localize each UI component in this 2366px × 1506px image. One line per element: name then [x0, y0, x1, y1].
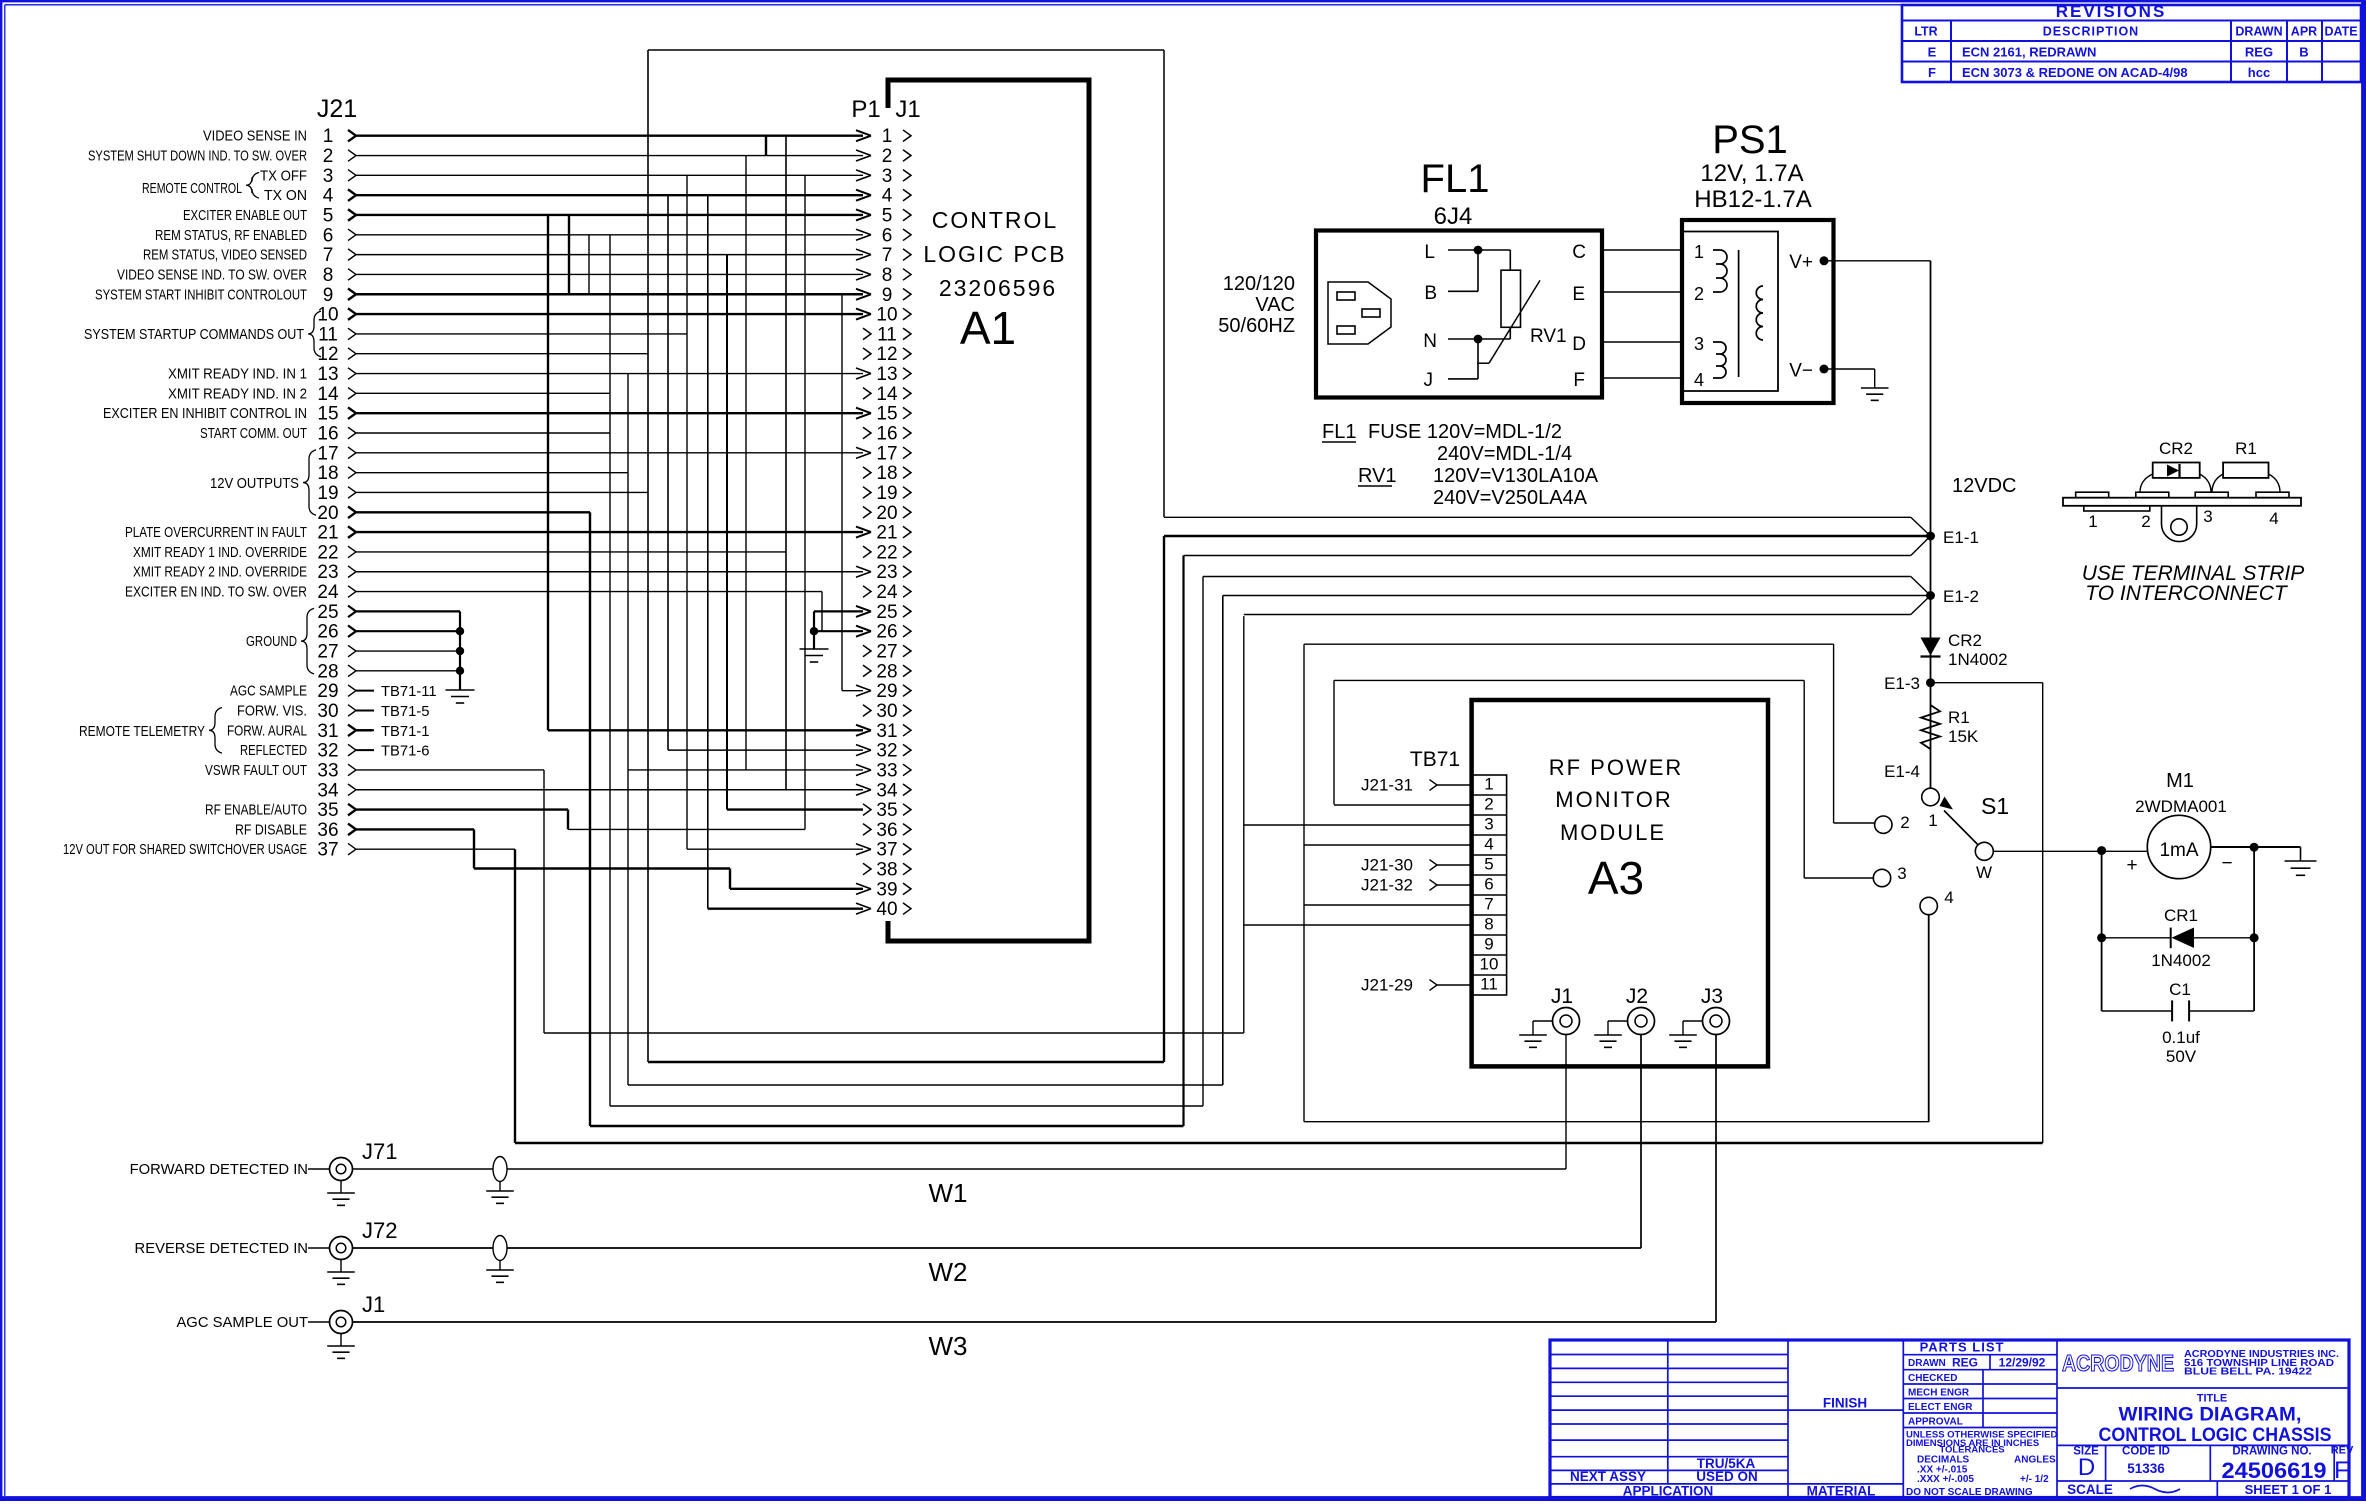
svg-text:W2: W2: [929, 1257, 968, 1287]
svg-text:REFLECTED: REFLECTED: [240, 743, 307, 759]
wire pin36 jog: [474, 867, 730, 869]
svg-text:7: 7: [1484, 895, 1493, 914]
wire J21 pin 7: [143, 245, 863, 266]
switch S1: [1873, 788, 2009, 915]
svg-text:NEXT ASSY: NEXT ASSY: [1570, 1469, 1646, 1484]
wire J21 pin 12: [317, 344, 648, 365]
svg-text:5: 5: [882, 205, 893, 226]
wire J1 to W1: [1565, 1035, 1567, 1170]
svg-text:S1: S1: [1981, 793, 2009, 819]
svg-text:12V OUT FOR SHARED SWITCHOVER: 12V OUT FOR SHARED SWITCHOVER USAGE: [63, 842, 307, 858]
svg-text:LTR: LTR: [1914, 25, 1937, 39]
svg-text:VIDEO SENSE IN: VIDEO SENSE IN: [203, 129, 307, 145]
svg-text:APPLICATION: APPLICATION: [1623, 1484, 1714, 1499]
wire FL1 to PS1: [1601, 341, 1684, 343]
wire to S1 position 3: [1334, 679, 1804, 681]
svg-text:E: E: [1572, 284, 1585, 305]
wire J21 pin 11: [318, 324, 687, 345]
svg-text:SYSTEM SHUT DOWN IND. TO SW. O: SYSTEM SHUT DOWN IND. TO SW. OVER: [88, 149, 307, 165]
svg-text:2: 2: [1484, 795, 1493, 814]
svg-text:11: 11: [1480, 975, 1498, 994]
svg-text:XMIT READY IND. IN 1: XMIT READY IND. IN 1: [168, 367, 307, 383]
svg-text:GROUND: GROUND: [246, 634, 297, 650]
wire J21 pin 8: [117, 265, 863, 286]
svg-text:REM STATUS, RF ENABLED: REM STATUS, RF ENABLED: [155, 228, 307, 244]
svg-text:30: 30: [876, 701, 897, 722]
svg-text:C: C: [1572, 242, 1586, 263]
wire J21 pin 27: [317, 642, 460, 663]
svg-text:START COMM. OUT: START COMM. OUT: [200, 426, 307, 442]
svg-text:B: B: [1424, 283, 1437, 304]
svg-text:28: 28: [876, 661, 897, 682]
resistor R1 15K: [1921, 705, 1979, 749]
wire S1 wiper to meter: [1993, 850, 2147, 852]
svg-text:APR: APR: [2291, 25, 2317, 39]
connector P1/J1 pin 32: [856, 741, 911, 762]
svg-text:VAC: VAC: [1255, 294, 1295, 316]
wire J21 pin 18: [317, 463, 628, 484]
svg-text:CR1: CR1: [2164, 906, 2198, 925]
svg-text:PLATE OVERCURRENT IN FAULT: PLATE OVERCURRENT IN FAULT: [125, 525, 307, 541]
svg-text:TB71-1: TB71-1: [381, 724, 430, 740]
svg-text:21: 21: [876, 523, 897, 544]
svg-text:E1-3: E1-3: [1884, 674, 1920, 693]
wire J21 pin 28: [317, 661, 460, 682]
svg-text:25: 25: [876, 602, 897, 623]
wire J21 pin 20: [317, 503, 590, 524]
svg-text:9: 9: [1484, 935, 1493, 954]
wire to P1 pin 33: [628, 769, 863, 771]
svg-text:XMIT READY 2 IND. OVERRIDE: XMIT READY 2 IND. OVERRIDE: [133, 565, 307, 581]
ground P1 pins 25-26: [800, 611, 829, 662]
svg-text:17: 17: [876, 443, 897, 464]
svg-text:REG: REG: [1952, 1356, 1978, 1370]
wire J21 pin 6: [155, 225, 863, 246]
coax connector J72: [135, 1218, 398, 1284]
svg-text:ECN 2161, REDRAWN: ECN 2161, REDRAWN: [1962, 45, 2096, 60]
svg-text:4: 4: [2269, 509, 2278, 528]
connector P1/J1 pin 29: [856, 681, 911, 702]
svg-text:REM STATUS, VIDEO SENSED: REM STATUS, VIDEO SENSED: [143, 248, 307, 264]
svg-text:14: 14: [317, 384, 339, 405]
svg-text:DRAWN: DRAWN: [1908, 1358, 1946, 1369]
svg-text:hcc: hcc: [2248, 65, 2270, 80]
wire to TB71-4: [1304, 844, 1472, 846]
svg-text:TB71: TB71: [1410, 748, 1460, 771]
terminal strip drawing: [2063, 492, 2301, 541]
connector P1/J1 pin 31: [856, 721, 911, 742]
svg-text:CR2: CR2: [2159, 439, 2193, 458]
svg-text:SYSTEM STARTUP COMMANDS OUT: SYSTEM STARTUP COMMANDS OUT: [84, 327, 304, 343]
jack J3 on A3: [1669, 985, 1729, 1047]
ground meter: [2300, 847, 2302, 861]
wire vertical nest: [745, 156, 747, 770]
svg-text:30: 30: [317, 701, 338, 722]
control logic PCB A1: [888, 80, 1089, 941]
svg-text:F: F: [1573, 370, 1585, 391]
svg-text:TX ON: TX ON: [264, 188, 307, 204]
connector P1/J1 pin 27: [863, 642, 911, 663]
svg-text:35: 35: [317, 800, 338, 821]
svg-text:23: 23: [876, 562, 897, 583]
svg-text:34: 34: [317, 780, 339, 801]
svg-text:26: 26: [876, 622, 897, 643]
svg-text:DRAWING NO.: DRAWING NO.: [2232, 1445, 2311, 1457]
svg-text:+: +: [2126, 855, 2137, 876]
svg-text:9: 9: [323, 285, 334, 306]
connector P1/J1 pin 9: [856, 285, 911, 306]
svg-text:DRAWN: DRAWN: [2235, 25, 2282, 39]
coax connector J1: [176, 1292, 385, 1358]
svg-text:38: 38: [876, 860, 897, 881]
svg-text:5: 5: [1484, 855, 1493, 874]
svg-text:V−: V−: [1789, 361, 1813, 382]
svg-text:1mA: 1mA: [2159, 840, 2198, 861]
node E1-2 bundle: [1203, 577, 1979, 615]
svg-text:J21-29: J21-29: [1361, 976, 1413, 995]
wire J21 pin 14: [168, 384, 610, 405]
connector P1/J1 pin 37: [856, 840, 911, 861]
wire bus horizontal: [1304, 1121, 1929, 1123]
svg-text:240V=V250LA4A: 240V=V250LA4A: [1433, 487, 1588, 509]
svg-text:28: 28: [317, 661, 338, 682]
svg-text:RF DISABLE: RF DISABLE: [235, 822, 307, 838]
svg-text:FL1: FL1: [1421, 157, 1490, 201]
svg-text:TB71-5: TB71-5: [381, 704, 430, 720]
wire J21 pin 24: [125, 582, 822, 603]
wire J21 pin 15: [103, 404, 863, 425]
jack J1 on A3: [1519, 985, 1579, 1047]
svg-text:J72: J72: [362, 1218, 397, 1243]
wire vertical nest: [707, 195, 709, 909]
svg-text:50/60HZ: 50/60HZ: [1218, 315, 1295, 337]
svg-text:32: 32: [876, 741, 897, 762]
varistor RV1: [1477, 250, 1567, 363]
wire J21 pin 30: [237, 701, 372, 722]
svg-text:21: 21: [317, 523, 338, 544]
connector P1/J1 pin 38: [863, 860, 911, 881]
svg-text:J2: J2: [1626, 985, 1648, 1008]
svg-text:1N4002: 1N4002: [2151, 951, 2211, 970]
connector P1/J1 pin 23: [856, 562, 911, 583]
node E1-3: [1926, 678, 1935, 687]
wire J21 pin 37: [63, 840, 515, 861]
wire V+ to rail: [1824, 260, 1931, 262]
ground J21 pins 25-28: [446, 611, 475, 703]
svg-text:J1: J1: [1551, 985, 1573, 1008]
wire J21 pin 29 stub to TB71-11: [356, 684, 437, 700]
svg-text:E1-4: E1-4: [1884, 762, 1920, 781]
svg-text:RV1: RV1: [1530, 326, 1567, 347]
svg-text:W: W: [1976, 863, 1992, 882]
connector P1/J1 pin 4: [856, 186, 911, 207]
wire to P1 pin 32: [668, 749, 863, 751]
node E1-1 bundle: [1164, 517, 1979, 555]
svg-text:DO NOT SCALE DRAWING: DO NOT SCALE DRAWING: [1906, 1487, 2033, 1498]
connector P1/J1 pin 8: [856, 265, 911, 286]
svg-text:J: J: [1424, 370, 1434, 391]
svg-text:EXCITER EN IND. TO SW. OVER: EXCITER EN IND. TO SW. OVER: [125, 585, 307, 601]
svg-text:10: 10: [876, 305, 897, 326]
svg-text:13: 13: [317, 364, 338, 385]
RF power monitor module A3: [1472, 700, 1768, 1066]
svg-text:SCALE: SCALE: [2067, 1482, 2113, 1497]
wire to P1 pin 31: [548, 729, 863, 731]
svg-text:32: 32: [317, 741, 338, 762]
transformer T inside PS1: [1694, 242, 1763, 390]
svg-text:P1: P1: [851, 96, 880, 123]
connector P1/J1 pin 28: [863, 661, 911, 682]
svg-text:FINISH: FINISH: [1823, 1396, 1867, 1411]
wire to P1 pin 40: [708, 907, 863, 909]
wire bus horizontal: [648, 1061, 1164, 1063]
svg-text:FORWARD DETECTED IN: FORWARD DETECTED IN: [130, 1162, 308, 1178]
svg-text:2: 2: [2141, 512, 2150, 531]
svg-text:ELECT ENGR: ELECT ENGR: [1908, 1402, 1973, 1413]
svg-text:4: 4: [882, 186, 893, 207]
wire vertical nest: [821, 592, 823, 632]
svg-text:1N4002: 1N4002: [1948, 650, 2008, 669]
svg-text:CONTROL LOGIC CHASSIS: CONTROL LOGIC CHASSIS: [2099, 1425, 2332, 1446]
svg-text:XMIT READY IND. IN 2: XMIT READY IND. IN 2: [168, 386, 307, 402]
svg-text:12: 12: [876, 344, 897, 365]
svg-text:TX OFF: TX OFF: [260, 168, 307, 184]
svg-text:+/- 1/2: +/- 1/2: [2020, 1474, 2049, 1485]
svg-text:7: 7: [882, 245, 893, 266]
sheet border inner: [5, 4, 2361, 6]
resistor R1 on terminal strip: [2212, 439, 2280, 492]
svg-text:3: 3: [1897, 864, 1906, 883]
power supply PS1: [1682, 118, 1834, 403]
svg-text:10: 10: [317, 305, 338, 326]
wire J21 pin 34: [317, 780, 863, 801]
wire J3 to W3: [1715, 1035, 1717, 1323]
svg-text:31: 31: [876, 721, 897, 742]
wire J21 pin 16: [200, 424, 610, 445]
wire vertical nest: [473, 829, 475, 868]
svg-text:HB12-1.7A: HB12-1.7A: [1694, 186, 1811, 213]
svg-text:J21-32: J21-32: [1361, 876, 1413, 895]
svg-text:25: 25: [317, 602, 338, 623]
svg-text:ECN 3073 & REDONE ON ACAD: ECN 3073 & REDONE ON ACAD-4/98: [1962, 65, 2188, 80]
connector P1/J1 pin 22: [863, 542, 911, 563]
svg-text:16: 16: [317, 424, 338, 445]
wire CR1 branch verticals: [2101, 851, 2103, 1011]
wire J21 pin 31: [227, 721, 372, 742]
svg-text:RF ENABLE/AUTO: RF ENABLE/AUTO: [205, 803, 307, 819]
cable W1: [353, 1157, 1567, 1209]
wire meter left node: [2097, 846, 2106, 855]
note FL1 fuse values: [1322, 421, 1599, 509]
svg-text:F: F: [1928, 65, 1936, 80]
connector P1/J1 pin 25: [856, 602, 911, 623]
svg-text:31: 31: [317, 721, 338, 742]
svg-text:1: 1: [1694, 242, 1704, 262]
svg-text:2: 2: [1900, 813, 1909, 832]
wire vertical nest: [726, 255, 728, 810]
svg-text:MONITOR: MONITOR: [1555, 787, 1672, 812]
svg-text:33: 33: [317, 760, 338, 781]
svg-text:23206596: 23206596: [939, 275, 1057, 301]
svg-text:33: 33: [876, 760, 897, 781]
revisions table: [1902, 2, 2361, 82]
wire vertical nest: [686, 175, 688, 849]
connector P1/J1 pin 19: [863, 483, 911, 504]
wire bus horizontal: [628, 1084, 1223, 1086]
svg-text:FUSE 120V=MDL-1/2: FUSE 120V=MDL-1/2: [1368, 421, 1562, 443]
svg-text:1: 1: [323, 126, 334, 147]
svg-text:USED ON: USED ON: [1696, 1469, 1758, 1484]
svg-text:C1: C1: [2169, 980, 2191, 999]
wire J21 pin 32: [240, 741, 372, 762]
svg-text:SHEET 1 OF 1: SHEET 1 OF 1: [2245, 1482, 2332, 1497]
svg-text:22: 22: [317, 542, 338, 563]
svg-text:18: 18: [876, 463, 897, 484]
diode CR2 1N4002: [1921, 631, 2008, 669]
wire loop over A1 top: [648, 49, 1164, 51]
svg-text:7: 7: [323, 245, 334, 266]
svg-text:120/120: 120/120: [1223, 273, 1295, 295]
svg-text:26: 26: [317, 622, 338, 643]
wire to S1 position 2: [1304, 643, 1834, 645]
svg-text:CONTROL: CONTROL: [932, 207, 1058, 233]
svg-text:J21-30: J21-30: [1361, 856, 1413, 875]
svg-text:24: 24: [876, 582, 898, 603]
wire to TB71-3: [1244, 824, 1472, 826]
svg-text:APPROVAL: APPROVAL: [1908, 1416, 1963, 1427]
wire to P1 pin 29: [842, 690, 863, 692]
meter M1 2WDMA001: [2126, 770, 2232, 879]
svg-text:MECH ENGR: MECH ENGR: [1908, 1387, 1970, 1398]
wire pin35 jog to row36: [567, 810, 569, 830]
svg-text:R1: R1: [2235, 439, 2257, 458]
connector P1/J1 pin 17: [856, 443, 911, 464]
svg-text:22: 22: [876, 542, 897, 563]
svg-text:37: 37: [876, 840, 897, 861]
wire J21 pin 2: [88, 146, 863, 167]
svg-text:120V=V130LA10A: 120V=V130LA10A: [1433, 465, 1599, 487]
wire J21 pin 32 stub to TB71-6: [356, 744, 430, 760]
svg-text:J3: J3: [1701, 985, 1723, 1008]
svg-text:D: D: [1572, 334, 1586, 355]
svg-text:MATERIAL: MATERIAL: [1807, 1484, 1876, 1499]
svg-text:REMOTE TELEMETRY: REMOTE TELEMETRY: [79, 724, 205, 740]
svg-text:WIRING DIAGRAM,: WIRING DIAGRAM,: [2119, 1405, 2302, 1426]
connector P1/J1 pin 40: [856, 899, 911, 920]
wire vertical nest: [568, 215, 570, 294]
svg-text:TITLE: TITLE: [2197, 1393, 2228, 1405]
svg-text:8: 8: [323, 265, 334, 286]
wire to P1 pin 35: [727, 808, 863, 810]
svg-text:10: 10: [1480, 955, 1499, 974]
svg-text:L: L: [1424, 242, 1435, 263]
wire to TB71-2: [1334, 804, 1472, 806]
wire vertical nest: [627, 374, 629, 1085]
svg-text:12V OUTPUTS: 12V OUTPUTS: [210, 476, 299, 492]
wire to TB71-7: [1304, 904, 1472, 906]
svg-text:R1: R1: [1948, 708, 1970, 727]
connector P1/J1 pin 30: [863, 701, 911, 722]
svg-text:20: 20: [876, 503, 897, 524]
wire J21 pin 1: [203, 126, 863, 147]
svg-text:6: 6: [323, 225, 334, 246]
cable W3: [353, 1322, 1717, 1361]
svg-text:36: 36: [317, 820, 338, 841]
svg-text:3: 3: [1694, 334, 1704, 354]
svg-text:V+: V+: [1789, 252, 1813, 273]
svg-text:J1: J1: [362, 1292, 385, 1317]
svg-text:2: 2: [323, 146, 334, 167]
svg-text:3: 3: [2203, 507, 2212, 526]
IEC power inlet symbol: [1328, 282, 1391, 344]
svg-text:ANGLES: ANGLES: [2014, 1455, 2056, 1466]
wire J21 pin 17: [317, 443, 863, 464]
wire J21 pin 35: [205, 800, 568, 821]
svg-text:J1: J1: [895, 96, 920, 123]
svg-text:34: 34: [876, 780, 898, 801]
svg-text:E1-2: E1-2: [1943, 587, 1979, 606]
svg-text:39: 39: [876, 879, 897, 900]
wire J21 pin 36: [235, 820, 474, 841]
svg-text:2: 2: [1694, 284, 1704, 304]
svg-text:REMOTE CONTROL: REMOTE CONTROL: [142, 181, 242, 197]
wire vertical nest: [543, 770, 545, 1033]
connector P1/J1 pin 11: [863, 324, 911, 345]
svg-text:12VDC: 12VDC: [1952, 475, 2016, 497]
connector P1/J1 pin 1: [856, 126, 911, 147]
svg-text:1: 1: [882, 126, 893, 147]
svg-text:J21: J21: [317, 95, 357, 123]
svg-text:J71: J71: [362, 1139, 397, 1164]
sheet border right band: [2361, 2, 2364, 1499]
svg-text:DATE: DATE: [2324, 25, 2357, 39]
wire FL1 to PS1: [1601, 291, 1684, 293]
connector P1/J1 pin 24: [863, 582, 911, 603]
wire J21 pin 21: [125, 523, 863, 544]
svg-text:3: 3: [323, 166, 334, 187]
svg-text:20: 20: [317, 503, 338, 524]
wire bus horizontal: [544, 1032, 1244, 1034]
wire J21 pin 25: [317, 602, 460, 623]
connector P1/J1 pin 20: [863, 503, 911, 524]
connector P1/J1 pin 16: [863, 424, 911, 445]
wire vertical nest: [547, 215, 549, 730]
wire vertical nest: [588, 235, 590, 294]
svg-text:12V, 1.7A: 12V, 1.7A: [1700, 160, 1803, 187]
wire J21 pin 9: [95, 285, 863, 306]
svg-text:24: 24: [317, 582, 339, 603]
svg-text:RV1: RV1: [1358, 465, 1397, 487]
svg-text:11: 11: [877, 324, 897, 345]
svg-text:0.1uf: 0.1uf: [2162, 1028, 2200, 1047]
svg-text:FORW. AURAL: FORW. AURAL: [227, 723, 307, 739]
connector P1/J1 pin 10: [856, 305, 911, 326]
svg-text:35: 35: [876, 800, 897, 821]
svg-text:BLUE BELL PA. 19422: BLUE BELL PA. 19422: [2184, 1367, 2313, 1378]
svg-text:15K: 15K: [1948, 727, 1979, 746]
svg-text:1: 1: [1484, 775, 1493, 794]
wire V- to ground: [1824, 368, 1875, 370]
svg-text:29: 29: [317, 681, 338, 702]
svg-text:EXCITER EN INHIBIT CONTROL IN: EXCITER EN INHIBIT CONTROL IN: [103, 406, 307, 422]
svg-text:REV: REV: [2331, 1445, 2354, 1457]
wire J21 pin 5: [183, 205, 863, 226]
svg-text:36: 36: [876, 820, 897, 841]
svg-text:REVERSE DETECTED IN: REVERSE DETECTED IN: [135, 1241, 308, 1257]
connector P1/J1 pin 34: [856, 780, 911, 801]
svg-text:13: 13: [876, 364, 897, 385]
wire J21 pin 22: [133, 542, 786, 563]
